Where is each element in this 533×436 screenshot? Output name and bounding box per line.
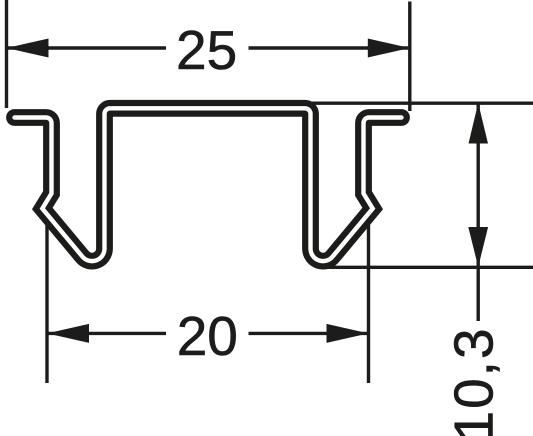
svg-text:10,3: 10,3 bbox=[443, 326, 505, 436]
svg-text:20: 20 bbox=[177, 305, 238, 367]
svg-text:25: 25 bbox=[176, 19, 237, 81]
